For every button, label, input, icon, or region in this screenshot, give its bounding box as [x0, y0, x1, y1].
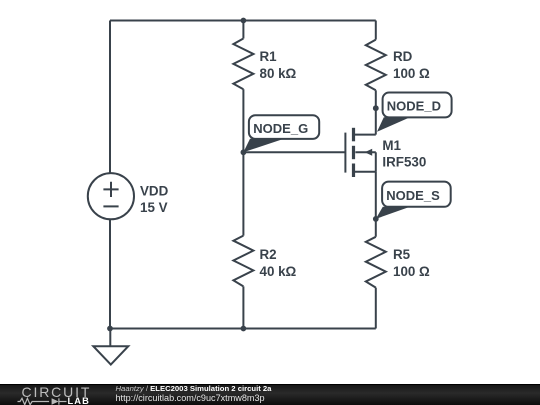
- svg-text:40 kΩ: 40 kΩ: [260, 264, 297, 279]
- wire middle branch upper stub: [242, 21, 244, 39]
- wire right branch upper stub: [375, 21, 377, 40]
- CircuitLab logo: [0, 385, 110, 405]
- svg-text:15 V: 15 V: [140, 200, 168, 215]
- svg-text:NODE_S: NODE_S: [386, 188, 440, 203]
- svg-text:100 Ω: 100 Ω: [393, 66, 430, 81]
- node NODE_S flag tail: [376, 207, 410, 219]
- VDD plus sign: [103, 182, 118, 197]
- transistor M1 body-source tie: [375, 152, 377, 172]
- node NODE_G flag tail: [243, 139, 284, 153]
- wire top rail: [110, 20, 376, 22]
- transistor M1 channel bar top: [352, 128, 355, 142]
- node NODE_S flag box: [382, 182, 451, 207]
- node NODE_G flag box: [249, 115, 319, 139]
- junction dot bottom middle: [241, 326, 247, 332]
- svg-text:NODE_G: NODE_G: [253, 121, 308, 136]
- resistor R1 zigzag: [233, 39, 253, 90]
- svg-text:RD: RD: [393, 49, 413, 64]
- svg-text:R2: R2: [260, 247, 277, 262]
- wire left rail lower: [109, 219, 111, 328]
- voltage source VDD circle: [88, 173, 134, 219]
- wire left rail upper: [109, 21, 111, 174]
- transistor M1 channel bar bottom: [352, 164, 355, 178]
- svg-text:VDD: VDD: [140, 184, 169, 199]
- junction dot node G: [241, 149, 247, 155]
- transistor M1 gate line: [344, 133, 346, 173]
- resistor R2 zigzag: [233, 236, 253, 287]
- footer title: [116, 385, 272, 393]
- footer url: [116, 394, 265, 402]
- svg-text:IRF530: IRF530: [382, 155, 426, 170]
- svg-text:R5: R5: [393, 247, 411, 262]
- wire right branch RD to drain: [375, 90, 377, 134]
- junction dot node S: [373, 216, 379, 222]
- svg-text:100 Ω: 100 Ω: [393, 264, 430, 279]
- resistor R5 zigzag: [366, 237, 386, 288]
- svg-text:80 kΩ: 80 kΩ: [260, 66, 297, 81]
- transistor M1 channel bar middle: [352, 146, 355, 159]
- wire right branch lower stub: [375, 288, 377, 329]
- VDD minus sign: [103, 205, 118, 207]
- wire right branch source to R5: [375, 172, 377, 237]
- wire middle branch between NODE_G and R2: [242, 152, 244, 235]
- svg-text:LAB: LAB: [68, 396, 90, 405]
- ground stem: [109, 329, 111, 347]
- svg-text:M1: M1: [382, 138, 401, 153]
- junction dot node D: [373, 105, 379, 111]
- junction dot bottom left: [107, 326, 113, 332]
- ground symbol: [93, 346, 128, 364]
- footer bar: [0, 384, 540, 405]
- transistor M1 body lead: [355, 151, 375, 153]
- svg-text:NODE_D: NODE_D: [387, 99, 441, 114]
- junction dot top rail: [241, 18, 247, 24]
- wire gate from NODE_G: [243, 151, 345, 153]
- wire middle branch between R1 and NODE_G: [242, 89, 244, 152]
- node NODE_D flag tail: [377, 117, 410, 132]
- resistor RD zigzag: [366, 40, 386, 91]
- wire bottom rail: [110, 328, 376, 330]
- wire middle branch lower stub: [242, 286, 244, 328]
- transistor M1 source lead: [355, 171, 376, 173]
- node NODE_D flag box: [383, 93, 452, 118]
- svg-text:R1: R1: [260, 49, 278, 64]
- transistor M1 body arrow: [365, 149, 373, 156]
- transistor M1 drain lead: [355, 134, 376, 136]
